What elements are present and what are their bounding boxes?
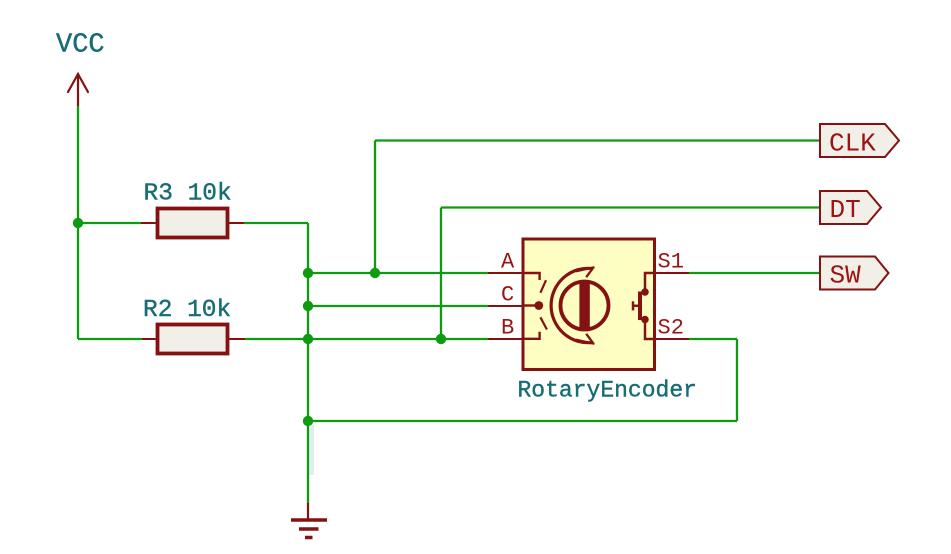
wire VCC vertical [77, 106, 79, 339]
push switch stem [633, 301, 638, 310]
power symbol VCC [68, 74, 88, 106]
ground [291, 503, 327, 538]
push switch actuator bar [638, 292, 642, 321]
junction row B DT [436, 334, 446, 344]
svg-text:S1: S1 [658, 250, 684, 275]
global label DT [820, 191, 881, 225]
encoder common wiper C [523, 301, 543, 310]
junction row C column [303, 301, 313, 311]
junction bottom column [303, 416, 313, 426]
junction row A CLK [370, 268, 380, 278]
push switch contact S2 [641, 316, 654, 339]
junction row A column [303, 268, 313, 278]
wire CLK vertical [374, 141, 376, 274]
pin S1 [655, 272, 690, 274]
encoder arrow top [576, 267, 595, 277]
wire S2 vertical [736, 339, 738, 421]
wire bottom return [308, 420, 737, 422]
svg-text:SW: SW [830, 261, 862, 291]
svg-text:R3 10k: R3 10k [144, 181, 232, 208]
encoder arrow bottom [576, 334, 595, 344]
encoder shaft slot bar [579, 282, 589, 329]
svg-text:DT: DT [830, 195, 861, 225]
artifact streak [310, 425, 315, 475]
encoder rotation arc [551, 268, 593, 342]
resistor R3 [141, 209, 244, 238]
push switch contact S1 [641, 273, 654, 296]
encoder contact bracket A [523, 273, 540, 280]
global label SW [820, 257, 889, 291]
wire to R2 left [78, 338, 142, 340]
wire S2 horizontal [689, 338, 737, 340]
wire row A [308, 272, 488, 274]
wire to R3 left [78, 222, 141, 224]
svg-text:A: A [501, 250, 515, 275]
svg-text:VCC: VCC [56, 31, 105, 61]
wire R2 right [245, 338, 308, 340]
wire row B [308, 338, 488, 340]
pin S2 [655, 338, 690, 340]
wire DT vertical [440, 208, 442, 340]
pin A [488, 272, 523, 274]
wire row C [308, 305, 488, 307]
svg-text:C: C [501, 283, 514, 308]
pin B [488, 338, 523, 340]
svg-text:RotaryEncoder: RotaryEncoder [518, 378, 697, 404]
svg-text:CLK: CLK [829, 129, 876, 159]
svg-text:B: B [501, 316, 514, 341]
encoder shaft circle [561, 282, 609, 330]
wire main column [307, 223, 309, 503]
encoder contact bracket B [523, 332, 540, 339]
pin C [488, 305, 523, 307]
resistor R2 [142, 325, 245, 354]
encoder moving contact lower [540, 317, 547, 329]
wire DT horizontal [441, 206, 820, 208]
global label CLK [820, 124, 899, 159]
junction row B column [303, 334, 313, 344]
junction at VCC R3 [73, 218, 83, 228]
rotary encoder body [523, 239, 655, 370]
wire CLK horizontal [375, 139, 820, 141]
wire R3 right [244, 222, 308, 224]
encoder moving contact upper [540, 280, 546, 293]
svg-text:R2 10k: R2 10k [143, 297, 231, 324]
svg-text:S2: S2 [658, 316, 684, 341]
wire SW [689, 272, 820, 274]
